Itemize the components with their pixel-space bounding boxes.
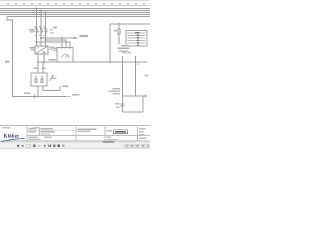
connector box rows	[128, 33, 146, 43]
title text datum row	[29, 128, 37, 130]
reference arrow PE right	[68, 96, 71, 97]
ELO number box	[114, 130, 128, 134]
frame top ruler line	[0, 5, 150, 7]
terminal X1 label	[24, 92, 31, 94]
logo swoosh	[1, 138, 25, 142]
wire PE drop left	[7, 17, 13, 97]
node (74.5,38)	[74, 37, 76, 39]
label 1M	[42, 67, 46, 69]
nav right buttons	[125, 144, 150, 148]
device box	[123, 96, 148, 112]
node (110,62)	[109, 61, 111, 63]
wire 24V rail y62	[38, 61, 147, 63]
project number label	[107, 130, 113, 132]
transformer T1	[35, 46, 48, 54]
wire right feeder drop x110	[109, 24, 111, 62]
transformer T1 marks	[37, 48, 46, 53]
wire breaker pole 1	[36, 9, 38, 47]
wire breaker pole 3	[45, 13, 47, 47]
title description text	[78, 128, 97, 129]
node L2 tap	[40, 10, 42, 12]
fuse F1 label	[114, 30, 118, 32]
cable label W1	[5, 61, 10, 64]
plug X2 labels	[121, 45, 129, 47]
bus line N	[0, 14, 150, 16]
connector symbol label	[115, 103, 120, 105]
terminal X1 tick	[34, 95, 36, 99]
nav next button	[44, 145, 46, 148]
wire K1 pin2 drop	[42, 62, 44, 73]
actuator arrow	[50, 75, 54, 81]
bus line L3	[0, 12, 150, 14]
node (62,38)	[61, 37, 63, 39]
bus line L2	[0, 10, 150, 12]
bus line PE	[7, 16, 150, 18]
reference arrow L21	[76, 37, 79, 38]
wire tap y40	[46, 40, 67, 48]
transformer T1 label	[30, 47, 35, 49]
node (38,62)	[37, 61, 39, 63]
label right wire	[145, 75, 149, 77]
connector box contact column	[135, 32, 140, 46]
breaker Q1 terminal numbers bottom	[35, 35, 45, 36]
breaker Q1 terminal numbers top	[35, 26, 45, 27]
window top edge	[0, 0, 150, 2]
wire plug right down	[135, 56, 137, 96]
nav first button	[17, 145, 19, 148]
wire T1 secondary right	[43, 54, 45, 62]
nav sep text	[33, 145, 36, 147]
title text bearb row	[29, 131, 37, 133]
nav prev button	[22, 145, 24, 148]
nav toolbar	[0, 143, 150, 149]
wire right feeder y24	[110, 23, 150, 25]
breaker Q1 label	[29, 29, 35, 31]
page counter text	[103, 142, 115, 144]
wire T1 secondary left	[37, 54, 39, 73]
node (41,38)	[40, 37, 42, 39]
plug X2 contacts	[123, 52, 131, 53]
actuator label	[52, 78, 57, 80]
fuse F1	[118, 24, 120, 44]
wire tap y38 to reference arrow	[41, 37, 75, 39]
meter P1 box	[57, 48, 73, 63]
node (135.5,62)	[135, 61, 137, 63]
wire breaker pole 2	[40, 11, 42, 47]
frame column tick labels	[7, 3, 145, 5]
title text blatt row left	[29, 136, 38, 138]
reference arrow up	[59, 85, 60, 88]
blatt row right	[107, 137, 112, 138]
node L1 tap	[36, 8, 38, 10]
labels left of device box	[113, 88, 121, 90]
meter pins ticks	[61, 48, 70, 50]
wire PE bottom rail y96.5	[13, 96, 68, 98]
page background	[0, 0, 150, 150]
breaker value C6A	[50, 29, 52, 31]
label 1L+	[34, 67, 38, 69]
meter P1 label	[53, 47, 57, 49]
connector symbol on left edge	[120, 104, 124, 106]
wire K1 out right	[43, 86, 60, 91]
transformer T1 value	[50, 46, 55, 48]
bus line L1	[0, 8, 150, 10]
wire plug left down	[122, 56, 124, 112]
relay K1 box	[31, 73, 47, 86]
node (45.5,40)	[45, 39, 47, 41]
node (44,62)	[43, 61, 45, 63]
nav field	[27, 144, 30, 147]
wire K1 out left	[37, 86, 39, 97]
frame bottom tiny text left	[2, 127, 11, 128]
nav last button	[48, 145, 50, 148]
label 24VDC	[49, 59, 57, 61]
nav extra glyph	[53, 145, 55, 147]
wire meter drop x62	[61, 38, 63, 48]
title block table	[27, 127, 150, 142]
plus minus equals cells	[139, 128, 146, 129]
node L3 tap	[45, 12, 47, 14]
relay K1 element 2	[41, 76, 43, 83]
breaker Q1	[35, 28, 49, 34]
node (36.5,42)	[36, 41, 38, 43]
title block bottom line	[0, 140, 150, 142]
meter P1 gauge	[62, 54, 69, 58]
node (38,96.5)	[37, 96, 39, 98]
frame bottom line	[0, 125, 150, 127]
node (119,24)	[118, 23, 120, 25]
connector box A1	[126, 31, 147, 47]
device box stub tick	[145, 95, 147, 98]
wire tap y42	[37, 42, 71, 48]
relay K1 element 1	[35, 76, 37, 83]
